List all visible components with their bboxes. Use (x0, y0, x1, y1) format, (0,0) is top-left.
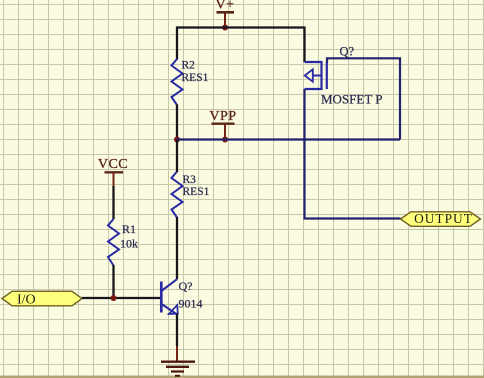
svg-text:RES1: RES1 (182, 72, 209, 84)
wire R1 bottom (112, 265, 114, 298)
svg-text:VCC: VCC (98, 157, 128, 172)
svg-text:I/O: I/O (17, 293, 36, 308)
wire R2 bottom (176, 105, 178, 140)
svg-text:R3: R3 (183, 174, 197, 186)
wire I/O to base (82, 297, 161, 299)
svg-text:R1: R1 (122, 222, 136, 236)
port I/O (2, 291, 82, 307)
svg-text:9014: 9014 (179, 297, 203, 311)
port OUTPUT (401, 211, 481, 226)
wire top horizontal (176, 26, 306, 28)
svg-text:R2: R2 (182, 60, 196, 72)
svg-text:Q?: Q? (340, 45, 355, 59)
wire R3 top (176, 140, 178, 173)
wire VCC to R1 (112, 186, 114, 219)
ground (161, 346, 195, 376)
power V+ (215, 0, 234, 28)
junction dot VPP node (222, 137, 228, 143)
wire left column top (176, 27, 178, 60)
svg-text:MOSFET P: MOSFET P (321, 92, 383, 107)
svg-text:Q?: Q? (179, 279, 193, 293)
transistor Q? MOSFET P (305, 45, 383, 107)
wire MOSFET source to OUTPUT (305, 89, 401, 219)
wire R3 bottom to collector (176, 217, 178, 279)
wire gate loop (327, 58, 400, 139)
junction dot R1 node (111, 295, 117, 301)
svg-text:VPP: VPP (209, 109, 236, 124)
svg-text:V+: V+ (215, 0, 234, 13)
resistor R3 (172, 172, 210, 218)
junction dot at V+ node (222, 25, 228, 31)
resistor R1 (108, 219, 138, 266)
power VCC (98, 157, 128, 186)
power VPP (209, 109, 236, 140)
wire MOSFET drain from top (303, 28, 305, 63)
resistor R2 (172, 59, 209, 105)
wire emitter down (176, 314, 178, 347)
wire VPP horizontal (177, 138, 400, 140)
transistor Q1 NPN 9014 (161, 279, 202, 315)
junction dot left VPP wire (174, 137, 180, 143)
svg-text:10k: 10k (120, 237, 138, 251)
svg-text:OUTPUT: OUTPUT (414, 211, 473, 226)
svg-text:RES1: RES1 (183, 186, 210, 198)
